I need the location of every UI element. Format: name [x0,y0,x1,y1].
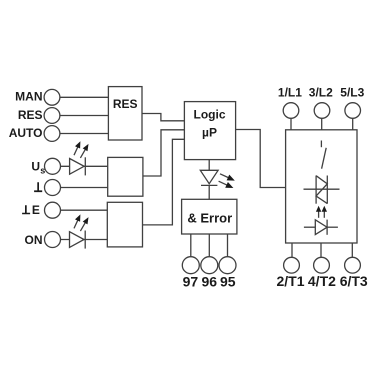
terminal circle 4/T2 [314,257,330,273]
label 3/L2 [309,86,333,100]
LED D1 (Us indicator) [70,157,86,175]
label 5/L3 [340,86,364,100]
wire output block to 4/T2 [320,243,322,257]
svg-text:& Error: & Error [187,211,232,226]
svg-text:95: 95 [220,274,236,290]
wire through photodiode D4 [304,226,338,228]
label AUTO [9,126,43,140]
switch S1 blade [322,148,327,169]
svg-text:AUTO: AUTO [9,126,43,140]
svg-text:Logic: Logic [194,108,226,122]
wire ⊥E to input block U2 [61,209,108,211]
block RES [108,87,142,140]
wire output block to 6/T3 [351,243,353,257]
svg-text:6/T3: 6/T3 [340,273,368,289]
svg-text:4/T2: 4/T2 [308,273,336,289]
block & Error [182,199,237,234]
wire input block U1 to Logic µP [143,130,185,176]
terminal circle RES [44,108,60,124]
terminal circle AUTO [44,126,60,142]
LED D2 (ON indicator) [70,231,86,249]
wire RES to RES block [60,115,109,117]
wire 1/L1 to output block [290,118,292,130]
wire output block to 2/T1 [291,243,293,257]
terminal circle ⊥E [45,202,61,218]
opto light arrows to triac [316,206,327,218]
svg-text:96: 96 [202,274,218,290]
wire & Error to terminal 95 [227,234,229,257]
wire 3/L2 to output block [321,118,323,130]
terminal circle ⊥ [45,180,61,196]
switch S1 contact stub [320,141,322,148]
input block U2 (⊥E / ON conditioning) [107,202,142,247]
svg-text:U: U [31,159,40,173]
svg-text:1/L1: 1/L1 [278,86,302,100]
label 97 96 95 [183,274,236,290]
terminal circle ON [45,232,61,248]
label ON [25,233,43,247]
svg-text:ON: ON [25,233,43,247]
wire Logic µP to status LED D3 [208,160,210,171]
wire Logic µP to output block [236,130,286,188]
label RES [18,108,43,122]
svg-text:E: E [32,203,40,217]
triac Q1 [316,176,327,204]
svg-text:97: 97 [183,274,199,290]
label ground ⊥ [34,182,42,192]
terminal circle 95 [219,257,236,274]
label ⊥E [22,203,40,217]
block Logic µP [184,102,235,160]
label 6/T3 [340,273,368,289]
wire & Error to terminal 96 [208,234,210,257]
svg-text:µP: µP [202,125,217,139]
status LED D3 [200,170,218,185]
wire AUTO to RES block [60,133,109,135]
wire status LED D3 to & Error block [208,185,210,199]
terminal circle 1/L1 [283,103,299,119]
light arrows of LED D2 [74,214,89,231]
terminal circle 2/T1 [284,257,300,273]
wire & Error to terminal 97 [190,234,192,257]
terminal circle 3/L2 [314,103,330,119]
wire ⊥ to input block [61,187,108,189]
svg-text:2/T1: 2/T1 [276,273,304,289]
label 1/L1 [278,86,302,100]
label Us [31,159,45,175]
svg-text:RES: RES [18,108,43,122]
svg-text:3/L2: 3/L2 [309,86,333,100]
terminal circle 96 [201,257,218,274]
terminal circle Us [45,158,61,174]
label MAN [15,90,42,104]
svg-text:5/L3: 5/L3 [340,86,364,100]
svg-text:MAN: MAN [15,90,42,104]
terminal circle 5/L3 [345,103,361,119]
terminal circle MAN [44,89,60,105]
wire through triac Q1 [304,188,340,190]
wire input block U2 to Logic µP [143,139,185,225]
input block U1 (Us / ⊥ conditioning) [108,157,143,196]
wire MAN to RES block [60,96,109,98]
light arrows of LED D3 [219,174,235,188]
label 2/T1 [276,273,304,289]
terminal circle 6/T3 [345,257,361,273]
wire ON to input block U2 [61,239,108,241]
wire Us to input block [61,165,108,167]
terminal circle 97 [182,257,199,274]
wire RES block output to Logic µP [142,114,184,121]
photodiode D4 [315,220,327,235]
label 4/T2 [308,273,336,289]
svg-text:RES: RES [113,97,138,111]
output block (solid-state contactor) [286,130,357,243]
wire 5/L3 to output block [352,118,354,130]
light arrows of LED D1 [74,141,89,158]
